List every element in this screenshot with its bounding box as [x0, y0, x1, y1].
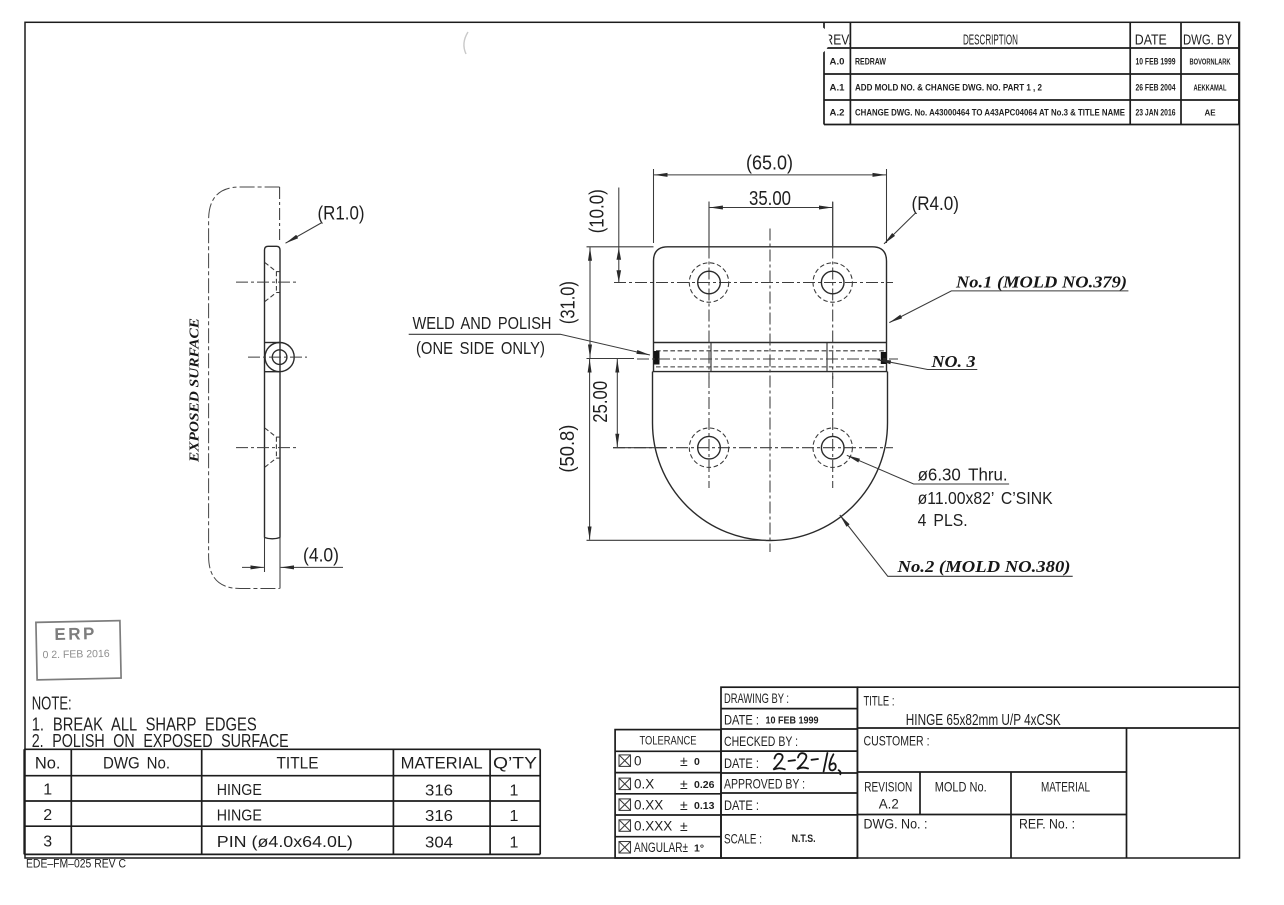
svg-text:DWG. BY: DWG. BY — [1183, 32, 1232, 49]
hinge centerline — [587, 358, 635, 360]
front view: hinge band — [653, 343, 888, 372]
svg-text:ø6.30 Thru.: ø6.30 Thru. — [918, 464, 1008, 484]
svg-text:DATE: DATE — [1135, 32, 1167, 49]
svg-text:TITLE :: TITLE : — [864, 693, 895, 708]
ERP date stamp — [36, 621, 121, 680]
label hole callout — [847, 455, 1053, 530]
svg-text:±: ± — [680, 818, 688, 834]
extension line top edge left — [587, 246, 654, 248]
dimension (65.0) — [654, 152, 887, 243]
svg-text:DWG No.: DWG No. — [103, 754, 170, 772]
side view: plate bottom edge — [265, 538, 281, 539]
svg-text:0.13: 0.13 — [694, 800, 715, 812]
svg-text:316: 316 — [425, 808, 453, 825]
svg-text:MATERIAL: MATERIAL — [1041, 780, 1090, 795]
svg-text:CHANGE DWG. No. A43000464 TO A: CHANGE DWG. No. A43000464 TO A43APC04064… — [855, 108, 1125, 119]
svg-text:0: 0 — [634, 753, 642, 768]
svg-text:MATERIAL: MATERIAL — [401, 754, 483, 772]
side view: centerline pin — [248, 356, 307, 358]
svg-text:Q’TY: Q’TY — [493, 754, 537, 772]
svg-text:NO. 3: NO. 3 — [930, 352, 976, 371]
svg-text:(31.0): (31.0) — [557, 281, 579, 324]
svg-text:HINGE 65x82mm U/P 4xCSK: HINGE 65x82mm U/P 4xCSK — [906, 712, 1061, 729]
svg-text:(10.0): (10.0) — [586, 189, 608, 233]
svg-text:REF. No. :: REF. No. : — [1019, 817, 1075, 832]
svg-text:0: 0 — [694, 756, 700, 768]
handwritten checked date 2-2-16 — [773, 753, 840, 774]
svg-text:0.X: 0.X — [634, 777, 654, 792]
svg-text:PIN (ø4.0x64.0L): PIN (ø4.0x64.0L) — [217, 834, 353, 851]
svg-text:(R1.0): (R1.0) — [318, 204, 365, 225]
dimension (50.8) — [557, 359, 766, 540]
parts list header — [35, 754, 537, 772]
svg-text:0 2. FEB 2016: 0 2. FEB 2016 — [42, 648, 110, 661]
revision table header row — [825, 32, 1233, 49]
svg-text:ANGULAR±: ANGULAR± — [634, 840, 688, 855]
revision row A.2 — [830, 107, 1217, 118]
svg-text:(50.8): (50.8) — [557, 425, 579, 473]
hole lower-right — [813, 428, 852, 467]
hole centerlines vertical (lower) — [708, 376, 710, 488]
svg-text:EXPOSED SURFACE: EXPOSED SURFACE — [187, 318, 202, 463]
svg-text:±: ± — [680, 753, 688, 769]
svg-text:10 FEB 1999: 10 FEB 1999 — [1136, 57, 1176, 68]
svg-text:DATE :: DATE : — [724, 713, 759, 728]
svg-text:1: 1 — [43, 782, 52, 799]
svg-text:A.2: A.2 — [830, 107, 845, 118]
revision row A.0 — [830, 56, 1231, 67]
svg-text:(ONE SIDE ONLY): (ONE SIDE ONLY) — [416, 338, 545, 358]
svg-text:0.XXX: 0.XXX — [634, 818, 672, 833]
hole centerlines vertical (upper) — [708, 202, 710, 247]
svg-text:DATE :: DATE : — [724, 798, 759, 813]
dimension 35.00 — [709, 188, 833, 246]
svg-text:SCALE :: SCALE : — [724, 832, 762, 847]
svg-text:1: 1 — [510, 808, 519, 825]
front view: lower plate outline — [653, 372, 888, 541]
svg-text:REVISION: REVISION — [864, 780, 912, 795]
svg-text:2. POLISH ON EXPOSED SURFACE: 2. POLISH ON EXPOSED SURFACE — [32, 730, 289, 751]
svg-text:TITLE: TITLE — [277, 754, 319, 772]
dimension (4.0) thickness — [242, 546, 343, 568]
svg-text:AEKKAMAL: AEKKAMAL — [1194, 84, 1227, 93]
parts row 3 — [43, 834, 518, 852]
tolerance checkboxes — [619, 755, 631, 853]
hole upper-right — [813, 263, 852, 302]
side view: countersink row 1 — [265, 263, 280, 302]
svg-text:A.1: A.1 — [830, 82, 846, 93]
svg-text:NOTE:: NOTE: — [32, 693, 72, 714]
svg-text:0.26: 0.26 — [694, 779, 715, 791]
parts list table grid — [24, 749, 540, 854]
svg-text:DWG. No. :: DWG. No. : — [864, 817, 928, 832]
svg-text:BOVORNLARK: BOVORNLARK — [1190, 58, 1231, 67]
label NO. 3 — [878, 352, 978, 371]
parts row 2 — [43, 807, 518, 825]
label (R1.0) with leader — [286, 204, 365, 244]
svg-text:ERP: ERP — [54, 624, 97, 644]
label No.1 (MOLD NO.379) — [889, 273, 1128, 323]
svg-text:(65.0): (65.0) — [746, 152, 793, 174]
front view: upper plate outline — [654, 247, 887, 343]
svg-text:3: 3 — [43, 834, 52, 851]
svg-text:1°: 1° — [694, 843, 704, 855]
title block: middle column grid — [721, 687, 857, 858]
side view: pin circle — [272, 350, 287, 365]
middle column texts — [724, 691, 805, 847]
svg-text:AE: AE — [1204, 109, 1216, 118]
white blob artifact over REV. — [801, 25, 830, 55]
svg-text:HINGE: HINGE — [217, 807, 262, 824]
side view: phantom outline of exposed surface — [209, 187, 280, 589]
svg-text:23 JAN 2016: 23 JAN 2016 — [1136, 108, 1176, 119]
svg-text:EDE–FM–025 REV C: EDE–FM–025 REV C — [26, 857, 126, 871]
hole upper-left — [689, 263, 728, 302]
svg-text:REDRAW: REDRAW — [855, 57, 887, 68]
svg-text:A.0: A.0 — [830, 56, 845, 67]
svg-text:2: 2 — [43, 807, 52, 824]
svg-text:ø11.00x82’ C’SINK: ø11.00x82’ C’SINK — [918, 488, 1053, 508]
svg-text:WELD AND POLISH: WELD AND POLISH — [413, 313, 552, 333]
svg-text:DESCRIPTION: DESCRIPTION — [963, 32, 1018, 49]
svg-text:CHECKED BY :: CHECKED BY : — [724, 734, 798, 749]
label No.2 (MOLD NO.380) — [840, 515, 1073, 576]
svg-text:(R4.0): (R4.0) — [912, 194, 960, 215]
dimension (10.0) — [586, 188, 621, 283]
revision table grid — [824, 23, 1239, 125]
notes — [32, 693, 289, 751]
svg-text:0.XX: 0.XX — [634, 797, 663, 812]
svg-text:TOLERANCE: TOLERANCE — [640, 735, 697, 747]
side view: plate outline — [265, 246, 281, 537]
front view: vertical centerline — [769, 229, 771, 553]
side view: centerline hole row 2 — [236, 447, 298, 449]
svg-text:±: ± — [680, 797, 688, 813]
weld mark right (blackened) — [881, 352, 887, 364]
svg-text:304: 304 — [425, 834, 453, 851]
svg-text:4 PLS.: 4 PLS. — [918, 510, 968, 530]
side view: pin axis centerline above plate — [279, 187, 281, 240]
svg-text:No.: No. — [35, 754, 61, 772]
svg-text:316: 316 — [425, 782, 453, 799]
dimension (31.0) — [557, 247, 590, 358]
hole lower-left — [689, 428, 728, 467]
svg-text:No.2 (MOLD NO.380): No.2 (MOLD NO.380) — [896, 557, 1070, 576]
side view: knuckle outer circle — [265, 343, 294, 372]
title block: tolerance box grid — [615, 730, 721, 858]
title block: right section grid — [857, 687, 1239, 858]
right section texts — [864, 693, 1091, 831]
svg-text:26 FEB 2004: 26 FEB 2004 — [1136, 83, 1176, 94]
svg-text:(4.0): (4.0) — [303, 546, 339, 567]
svg-text:±: ± — [680, 776, 688, 792]
svg-text:10 FEB 1999: 10 FEB 1999 — [766, 715, 819, 727]
svg-text:1: 1 — [510, 783, 519, 800]
side view: countersink row 2 — [265, 428, 280, 467]
svg-text:DATE :: DATE : — [724, 756, 759, 771]
svg-text:MOLD No.: MOLD No. — [935, 780, 987, 795]
svg-text:No.1 (MOLD NO.379): No.1 (MOLD NO.379) — [955, 273, 1127, 292]
parts row 1 — [43, 782, 518, 800]
hole row centerlines horizontal — [614, 282, 893, 284]
side view: plate edge extension lines below — [264, 538, 266, 573]
side view: centerline hole row 1 — [236, 281, 298, 283]
faint scan artifact arc top center — [464, 32, 468, 54]
svg-text:APPROVED BY :: APPROVED BY : — [724, 777, 805, 792]
side view: knuckle band edges — [265, 342, 280, 344]
svg-text:A.2: A.2 — [879, 797, 899, 812]
label (R4.0) with leader — [884, 194, 959, 244]
svg-text:N.T.S.: N.T.S. — [792, 833, 816, 845]
svg-text:1: 1 — [510, 835, 519, 852]
svg-text:CUSTOMER :: CUSTOMER : — [864, 734, 930, 749]
svg-text:HINGE: HINGE — [217, 782, 262, 799]
label WELD AND POLISH (ONE SIDE ONLY) — [409, 313, 650, 358]
svg-text:DRAWING BY :: DRAWING BY : — [724, 691, 789, 706]
dimension 25.00 — [590, 359, 666, 448]
weld mark left (blackened) — [654, 351, 660, 365]
svg-text:35.00: 35.00 — [749, 188, 791, 210]
revision row A.1 — [830, 82, 1227, 93]
svg-text:ADD MOLD NO. & CHANGE DWG. NO.: ADD MOLD NO. & CHANGE DWG. NO. PART 1 , … — [855, 83, 1042, 94]
svg-text:25.00: 25.00 — [590, 381, 612, 423]
